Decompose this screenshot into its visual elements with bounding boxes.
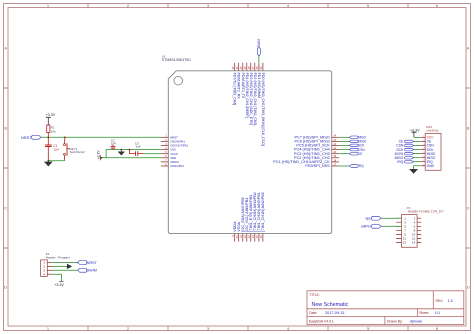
- svg-text:PD4 (HS)/TIM2_CH1 [BEEP]: PD4 (HS)/TIM2_CH1 [BEEP]: [245, 73, 249, 118]
- P1 pin 2: [43, 265, 52, 269]
- svg-text:D: D: [467, 285, 470, 290]
- P2 pins 13 and 14: [396, 241, 421, 245]
- U1 pin 20 PC3 (HS)/TIM1_CH3: [294, 151, 339, 156]
- junction C3: [129, 149, 131, 151]
- wire antPwr to P2 pin 5: [381, 225, 401, 227]
- power flag +3.3V at R1: [46, 113, 56, 125]
- wire P1 pin1 to NRST: [52, 262, 78, 264]
- U1 pin 2 OSCIN/PA1: [161, 139, 185, 144]
- svg-text:PD3 (HS)/TIM2_CH2 [ADC_ETR]: PD3 (HS)/TIM2_CH2 [ADC_ETR]: [249, 73, 253, 125]
- svg-text:1/1: 1/1: [435, 311, 440, 315]
- wire VDD row: [102, 157, 161, 159]
- resistor R1: [47, 125, 57, 137]
- U1 pin 17 PE5/SPI_NSS: [305, 163, 339, 168]
- connector P2 Header Female 2.54_2x7 body: [401, 206, 444, 247]
- svg-text:C: C: [467, 206, 470, 211]
- svg-text:djmvan: djmvan: [410, 320, 422, 324]
- capacitor C1: [45, 137, 59, 160]
- wire U1 to flag MISO: [339, 136, 349, 138]
- junction R1/C1 on NRST wire: [47, 136, 49, 138]
- IC U1 STM8S105K4T6C body: [162, 54, 332, 233]
- svg-text:IRQ: IRQ: [358, 164, 364, 168]
- svg-text:IRQ: IRQ: [397, 160, 403, 164]
- svg-text:+3.3V: +3.3V: [54, 283, 64, 287]
- svg-text:Date:: Date:: [309, 311, 317, 315]
- svg-text:SWIM: SWIM: [87, 269, 97, 273]
- P1 pin 3: [43, 269, 52, 273]
- capacitor C2: [111, 138, 117, 149]
- MK1 pin 3 CSN: [421, 144, 435, 148]
- wire SWIM to PD1: [258, 56, 260, 63]
- svg-text:+3.3V: +3.3V: [46, 113, 56, 117]
- junction ground C1: [47, 160, 49, 162]
- U1 pin 21 PC4 (HS)/TIM1_CH4: [294, 147, 339, 152]
- P1 pin 4: [43, 272, 52, 276]
- svg-text:2017-09-13: 2017-09-13: [325, 311, 344, 315]
- svg-text:New Schematic: New Schematic: [312, 302, 349, 308]
- P2 pins 3 and 4: [396, 220, 421, 224]
- P2 pins 11 and 12: [396, 237, 421, 241]
- U1 pin 22 PC5 (HS)/SPI_SCK: [296, 143, 339, 148]
- wire U1 to flag MOSI: [339, 140, 349, 142]
- connector P1 Header - Program body: [41, 252, 71, 276]
- svg-text:PD6/UART2_RX: PD6/UART2_RX: [237, 73, 241, 100]
- P2 pins 9 and 10: [396, 233, 421, 237]
- junction KEY1 top on NRST wire: [64, 136, 66, 138]
- svg-text:A: A: [4, 46, 7, 51]
- svg-text:+3.3V: +3.3V: [410, 128, 420, 132]
- svg-text:104: 104: [54, 147, 59, 151]
- svg-text:PD1 (HS)/SWIM: PD1 (HS)/SWIM: [257, 73, 261, 99]
- U1 pin 3 OSCOUT/PA2: [161, 143, 189, 148]
- power flag +3.3V at P1 (down): [54, 281, 64, 287]
- net flag MISO at MK1: [395, 156, 414, 160]
- wire VSS row: [106, 150, 161, 158]
- power flag +3.3V at VDD (rotated): [97, 150, 102, 161]
- svg-text:Switch3x4x2: Switch3x4x2: [70, 150, 86, 154]
- net flag SCK at MK1: [396, 148, 413, 152]
- svg-text:Header - Program: Header - Program: [46, 256, 71, 260]
- U1 pin 11 [I2C_SDA] AIN7/PB5: [240, 197, 245, 241]
- ground at MK1: [410, 169, 417, 173]
- svg-text:A: A: [467, 46, 470, 51]
- U1 pin 4 VSS: [161, 147, 176, 152]
- U1 pin 29 PD4 (HS)/TIM2_CH1 [BEEP]: [244, 63, 249, 118]
- net flag antPwr: [361, 224, 381, 228]
- MK1 pin 2 CE: [421, 140, 432, 144]
- net flag MOSI at MK1: [395, 152, 414, 156]
- U1 pin 28 PD3 (HS)/TIM2_CH2 [ADC_ETR]: [248, 63, 253, 125]
- wire U1 to flag CE: [339, 153, 349, 155]
- U1 pin 24 PC7 (HS)/SPI_MISO: [294, 135, 339, 140]
- svg-text:C: C: [4, 206, 7, 211]
- net flag MOSI: [349, 140, 366, 144]
- wire P1 pin4 to +3.3V: [52, 274, 62, 281]
- power flag +3.3V at MK1: [410, 128, 420, 137]
- ground (rotated) at P1: [67, 264, 71, 268]
- wire flag CE to MK1: [414, 141, 421, 143]
- U1 pin 14 [TIM1_CH3N] AIN4/PB2: [252, 192, 257, 242]
- svg-text:B: B: [4, 126, 7, 131]
- svg-text:Sheet:: Sheet:: [419, 311, 429, 315]
- svg-text:EasyEDA V4.9.1: EasyEDA V4.9.1: [309, 320, 334, 324]
- U1 pin 31 PD6/UART2_RX: [236, 63, 241, 100]
- U1 pin 32 PD7/TLI [TIM1_CH4]: [232, 63, 237, 106]
- svg-text:antPwr: antPwr: [361, 225, 372, 229]
- svg-text:+3.3V: +3.3V: [97, 150, 101, 160]
- U1 pin 25 PD0 (HS)/TIM3_CH2 [TIM1_BKIN] [CLK_CCO]: [260, 63, 265, 146]
- svg-text:[TIM1_CH1N] AIN2/PB0: [TIM1_CH1N] AIN2/PB0: [261, 192, 265, 232]
- wire flag SCK to MK1: [414, 149, 421, 151]
- svg-text:PD2 (HS)/TIM3_CH1 [TIM2_CH3]: PD2 (HS)/TIM3_CH1 [TIM2_CH3]: [253, 73, 257, 126]
- wire C1 bottom to KEY1 bottom: [48, 160, 64, 162]
- ground G2: [118, 150, 124, 155]
- net flag CSN at MK1: [396, 144, 413, 148]
- svg-text:PE5/SPI_NSS: PE5/SPI_NSS: [305, 164, 330, 168]
- wire NRST row: [41, 136, 161, 138]
- net flag SWIM (top): [257, 39, 261, 57]
- P1 pin 1: [43, 261, 52, 265]
- junction +3.3V VDD: [101, 157, 103, 159]
- ground G1: [45, 161, 52, 166]
- svg-text:Header Female 2.54_2x7: Header Female 2.54_2x7: [408, 209, 444, 213]
- net flag IRQ: [349, 164, 364, 168]
- wire flag CSN to MK1: [414, 145, 421, 147]
- P2 pins 1 and 2: [396, 216, 421, 220]
- net flag vjoy: [365, 216, 381, 220]
- U1 pin 10 VSSA: [236, 221, 241, 241]
- wire VCAP row: [143, 153, 161, 155]
- U1 pin 15 [TIM1_CH2N] AIN3/PB1: [256, 192, 261, 242]
- U1 pin 13 [TIM1_ETR] AIN5/PB3: [248, 195, 253, 242]
- svg-text:GND: GND: [427, 164, 435, 168]
- wire U1 to flag IRQ: [339, 165, 349, 167]
- svg-text:NRST: NRST: [87, 261, 98, 265]
- wire U1 to flag SCK: [339, 144, 349, 146]
- svg-text:104: 104: [111, 142, 116, 146]
- wire flag MOSI to MK1: [414, 153, 421, 155]
- wire P1 pin2 to ground: [52, 265, 67, 267]
- svg-text:STM8S105K4T6C: STM8S105K4T6C: [162, 58, 192, 62]
- wire flag MISO to MK1: [414, 157, 421, 159]
- svg-text:B: B: [467, 126, 470, 131]
- net flag SCK: [349, 144, 365, 148]
- MK1 pin 7 IRQ: [421, 160, 433, 164]
- svg-text:14: 14: [412, 241, 416, 245]
- U1 pin 9 VDDA: [232, 221, 237, 242]
- svg-text:13: 13: [403, 241, 407, 245]
- U1 pin 7 VDDIO: [161, 159, 180, 164]
- U1 pin 27 PD2 (HS)/TIM3_CH1 [TIM2_CH3]: [252, 63, 257, 126]
- svg-text:PD7/TLI [TIM1_CH4]: PD7/TLI [TIM1_CH4]: [233, 73, 237, 106]
- MK1 pin 8 GND: [421, 164, 435, 168]
- P2 pins 5 and 6: [396, 225, 421, 229]
- net flag IRQ at MK1: [397, 160, 413, 164]
- U1 pin 8 AIN12/PF4: [161, 163, 184, 168]
- U1 pin 19 PC2 (HS)/TIM1_CH2: [294, 155, 339, 160]
- net flag NRST left: [21, 135, 41, 139]
- svg-text:1uF: 1uF: [136, 145, 141, 149]
- net flag MISO: [349, 136, 366, 140]
- wire +3.3V to MK1 VCC: [414, 136, 421, 138]
- U1 pin 23 PC6 (HS)/SPI_MOSI: [294, 139, 339, 144]
- svg-text:NRST: NRST: [21, 136, 32, 140]
- svg-text:D: D: [4, 285, 7, 290]
- U1 pin 12 [I2C_SCL] AIN6/PB4: [244, 198, 249, 242]
- wire MK1 GND: [414, 166, 421, 170]
- U1 pin 5 VCAP: [161, 151, 178, 156]
- junction ground VSS: [120, 149, 122, 151]
- svg-text:REV.: REV.: [436, 299, 444, 303]
- svg-text:AIN12/PF4: AIN12/PF4: [170, 164, 184, 168]
- MK1 pin 4 SCK: [421, 148, 435, 152]
- net flag NRST at P1: [78, 261, 98, 265]
- MK1 pin 6 MISO: [421, 156, 436, 160]
- net flag CE at MK1: [399, 140, 414, 144]
- U1 pin 26 PD1 (HS)/SWIM: [256, 63, 261, 98]
- connector MK1 nrf24l01p body: [425, 125, 441, 170]
- svg-text:Drawn By:: Drawn By:: [387, 320, 403, 324]
- wire U1 to flag CSN: [339, 149, 349, 151]
- P2 pins 7 and 8: [396, 229, 421, 233]
- U1 pin 18 PC1 (HS)/TIM1_CH1/UART2_CK: [273, 159, 339, 164]
- svg-text:CE: CE: [358, 152, 362, 156]
- wire flag IRQ to MK1: [414, 161, 421, 163]
- net flag CSN: [349, 148, 365, 152]
- U1 pin 1 NRST: [161, 135, 178, 140]
- svg-text:10k: 10k: [51, 129, 56, 133]
- U1 pin 6 VDD: [161, 155, 176, 160]
- title block: [307, 291, 464, 325]
- switch KEY1: [64, 137, 86, 160]
- U1 pin 16 [TIM1_CH1N] AIN2/PB0: [260, 192, 265, 242]
- svg-text:1.0: 1.0: [448, 299, 453, 303]
- svg-text:PD0 (HS)/TIM3_CH2 [TIM1_BKIN]: PD0 (HS)/TIM3_CH2 [TIM1_BKIN] [CLK_CCO]: [261, 73, 265, 146]
- svg-text:PD5/UART2_TX: PD5/UART2_TX: [241, 73, 245, 99]
- wire P1 pin3 to SWIM: [52, 269, 78, 271]
- svg-text:nrf24l01p: nrf24l01p: [426, 128, 439, 132]
- net flag SWIM at P1: [78, 268, 97, 272]
- svg-text:vjoy: vjoy: [365, 216, 371, 220]
- wire vjoy to P2 pin 1: [381, 217, 401, 219]
- U1 pin 30 PD5/UART2_TX: [240, 63, 245, 99]
- net flag CE: [349, 152, 362, 156]
- svg-text:SWIM: SWIM: [257, 39, 261, 48]
- svg-text:TITLE:: TITLE:: [310, 293, 320, 297]
- MK1 pin 1 VCC: [421, 136, 435, 140]
- MK1 pin 5 MOSI: [421, 152, 436, 156]
- capacitor C3: [130, 142, 144, 156]
